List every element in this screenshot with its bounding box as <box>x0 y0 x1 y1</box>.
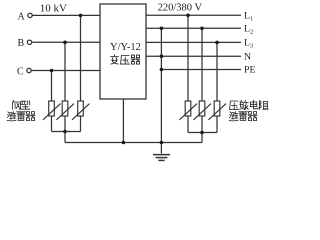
valve arrester F1 <box>43 101 61 120</box>
svg-text:Y/Y-12: Y/Y-12 <box>110 42 141 53</box>
char 变 <box>111 55 119 64</box>
terminal B <box>27 40 31 44</box>
svg-text:PE: PE <box>244 65 255 76</box>
terminal A <box>28 13 32 17</box>
varistor arrester RV2 <box>194 101 212 120</box>
char 敏 <box>239 100 248 109</box>
junction varistor join <box>200 131 204 135</box>
wire F2 bottom <box>64 116 66 132</box>
char 雷 <box>239 112 248 121</box>
wire F3 bottom <box>80 116 82 132</box>
wire varistor join drop <box>201 133 203 143</box>
junction C-F1 <box>50 69 54 73</box>
transformer T box <box>100 4 146 99</box>
junction L2 earth tap <box>160 27 164 31</box>
wire L1 <box>146 14 241 16</box>
svg-text:B: B <box>18 38 25 49</box>
svg-text:L2: L2 <box>244 24 253 36</box>
junction L1-RV1 <box>186 14 190 18</box>
wire L2 <box>146 27 241 29</box>
label 阀型 (valve type) <box>12 100 30 109</box>
valve arrester F2 <box>57 101 75 120</box>
varistor arrester RV3 <box>209 101 227 120</box>
svg-text:220/380 V: 220/380 V <box>158 3 203 14</box>
svg-text:C: C <box>17 66 24 77</box>
char 器 <box>248 112 257 121</box>
svg-text:A: A <box>18 11 26 22</box>
junction earth bus ground <box>160 141 164 145</box>
char 器 <box>26 112 35 121</box>
wire phase A <box>33 14 101 16</box>
junction L3-RV3 <box>215 41 219 45</box>
svg-text:N: N <box>244 51 251 62</box>
svg-text:10 kV: 10 kV <box>40 3 67 15</box>
junction valve join <box>63 130 67 134</box>
wire drop L2 to varistor RV2 <box>201 28 203 101</box>
char 电 <box>250 100 258 109</box>
junction A-F3 <box>79 14 83 18</box>
junction N earth <box>160 54 164 58</box>
wire RV1 bottom <box>187 116 189 133</box>
label 避雷器 (left, arrester) <box>7 112 35 121</box>
wire N-PE earthing conductor <box>160 28 162 142</box>
wire PE <box>161 69 241 71</box>
wire RV3 bottom <box>216 116 218 133</box>
char 压 <box>230 101 239 110</box>
char 避 <box>7 112 16 121</box>
valve arrester F3 <box>72 101 90 120</box>
wire varistor join <box>188 132 217 134</box>
junction B-F2 <box>63 41 67 45</box>
svg-text:L3: L3 <box>244 38 253 50</box>
wire drop L1 to varistor RV1 <box>187 15 189 101</box>
char 器 <box>131 55 140 64</box>
wire phase C <box>32 70 101 72</box>
ground electrode stem <box>160 143 162 154</box>
char 雷 <box>17 112 26 121</box>
wire drop C to arrester F1 <box>51 71 53 102</box>
label 避雷器 (right, arrester) <box>229 112 257 121</box>
wire valve arrester join <box>52 131 81 133</box>
junction transformer earth <box>122 141 126 145</box>
junction PE start <box>160 68 164 72</box>
wire N <box>146 55 241 57</box>
wire drop A to arrester F3 <box>80 15 82 101</box>
varistor arrester RV1 <box>180 101 198 120</box>
wire transformer tank earth drop <box>122 99 124 143</box>
svg-text:L1: L1 <box>244 11 253 23</box>
transformer name 变压器 (hand-drawn glyphs) <box>111 55 141 64</box>
wire valve join drop <box>64 132 66 143</box>
terminal C <box>27 68 31 72</box>
wire earth bus <box>65 142 202 144</box>
wire L3 <box>146 41 241 43</box>
char 避 <box>229 112 238 121</box>
wire RV2 bottom <box>201 116 203 133</box>
char 型 <box>21 101 30 110</box>
label 压敏电阻 (varistor) <box>230 100 269 109</box>
char 压 <box>121 56 130 65</box>
junction L2-RV2 <box>200 27 204 31</box>
wire drop L3 to varistor RV3 <box>216 42 218 101</box>
char 阀 <box>12 100 20 109</box>
ground symbol <box>153 155 170 161</box>
wire F1 bottom <box>51 116 53 132</box>
wire drop B to arrester F2 <box>64 42 66 101</box>
char 阻 <box>259 101 268 110</box>
wire phase B <box>32 41 100 43</box>
